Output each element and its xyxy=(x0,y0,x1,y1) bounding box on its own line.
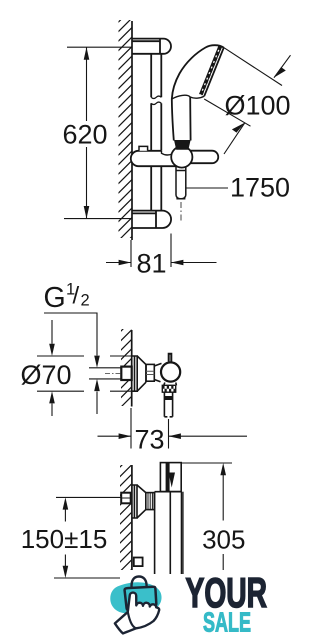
rail break symbol xyxy=(151,96,161,104)
shower head body xyxy=(172,45,224,99)
620 arrow up xyxy=(84,47,90,60)
1750 leader line xyxy=(187,187,229,189)
logo bag body xyxy=(125,587,157,610)
holder left cap xyxy=(131,151,139,166)
73 right dim line xyxy=(169,435,248,437)
shower handle tube xyxy=(172,97,191,141)
holder bar top edge xyxy=(139,150,162,152)
top bracket bar xyxy=(132,39,160,54)
head bottom edge to face xyxy=(190,96,204,98)
inlet fitting behind wall xyxy=(121,367,131,380)
Ø70 lower arrow shaft xyxy=(51,404,53,417)
inlet centerline xyxy=(105,372,122,374)
hose centerline dash-dot xyxy=(180,202,182,222)
holder cone bulge xyxy=(171,146,192,167)
73 right ext line xyxy=(168,419,170,449)
150 upper arrow shaft xyxy=(64,510,66,522)
escutcheon backplate xyxy=(132,356,137,391)
305 ext line xyxy=(181,462,232,464)
top fitting box xyxy=(160,463,181,492)
620 arrow down xyxy=(84,206,90,219)
fitting inner triangle xyxy=(169,473,176,488)
logo hand wrist line xyxy=(128,612,136,628)
holder clamp lever xyxy=(139,146,148,150)
body pipe xyxy=(155,492,182,574)
wall face line top xyxy=(131,21,133,240)
spray face inner line xyxy=(200,46,219,94)
fitting inner dark band xyxy=(166,463,170,492)
knob stem xyxy=(169,354,172,362)
G thread upper line xyxy=(89,367,122,369)
620 dimension line lower xyxy=(86,147,88,219)
spray face outer edge xyxy=(204,48,224,97)
bottom bracket bar xyxy=(132,211,156,228)
bottom wall face line xyxy=(131,465,133,570)
Ø100 upper arrowhead xyxy=(274,67,286,78)
rail tube xyxy=(151,54,161,210)
svg-text:81: 81 xyxy=(136,248,166,278)
svg-text:73: 73 xyxy=(134,424,164,454)
middle wall hatch xyxy=(120,319,134,418)
top bracket end cap xyxy=(160,39,171,54)
svg-text:SALE: SALE xyxy=(203,607,251,638)
outlet dark band xyxy=(164,396,172,400)
620 top extension line xyxy=(67,46,131,48)
logo teal blob xyxy=(110,582,161,613)
305 dim line lower xyxy=(222,554,224,570)
Ø100 upper extension line xyxy=(224,48,282,86)
G thread lower line xyxy=(89,378,122,380)
73 left ext line xyxy=(130,408,132,449)
bottom escutcheon cone xyxy=(137,485,146,518)
lower wall clamp xyxy=(134,558,143,567)
holder right arm xyxy=(190,151,218,164)
holder bar bottom edge xyxy=(139,165,178,167)
G1/2 arrow down xyxy=(94,356,100,368)
G1/2 leader lower shaft xyxy=(96,392,98,415)
escutcheon cone xyxy=(137,356,146,391)
hose upper tube xyxy=(176,167,186,199)
svg-text:150±15: 150±15 xyxy=(21,524,108,554)
81 left extension line xyxy=(130,240,132,267)
73 left dim line xyxy=(98,435,132,437)
collar inner lines xyxy=(146,371,154,374)
wall hatch top xyxy=(117,8,133,262)
Ø70 arrow up xyxy=(49,391,55,403)
G1/2 arrow up xyxy=(94,379,100,391)
holder left bar white body xyxy=(138,151,177,166)
spray nozzles dashes xyxy=(201,46,221,94)
svg-text:/: / xyxy=(73,283,80,310)
150 upper ext line xyxy=(56,496,121,498)
bottom bracket end cap xyxy=(156,211,171,228)
logo hand xyxy=(115,593,159,634)
81 left arrowhead xyxy=(119,260,131,266)
pipe right edge thick xyxy=(182,492,184,574)
Ø70 upper ext line xyxy=(37,355,132,357)
middle wall face line xyxy=(131,330,133,407)
shower head neck chord xyxy=(172,95,190,99)
checkered nut xyxy=(162,385,175,392)
svg-text:620: 620 xyxy=(62,120,107,150)
Ø100 lower arrow shaft xyxy=(224,123,245,154)
81 right arrowhead xyxy=(171,260,183,266)
Ø100 upper arrow shaft xyxy=(274,55,291,77)
Ø70 upper arrow shaft xyxy=(51,320,53,344)
handle cone black xyxy=(174,140,191,150)
150 lower arrow shaft xyxy=(64,555,66,567)
Ø70 arrow down xyxy=(49,344,55,356)
81 left dim line xyxy=(106,262,131,264)
svg-text:2: 2 xyxy=(81,292,90,310)
neck below knob xyxy=(164,383,177,386)
wall fitting split xyxy=(121,497,131,499)
Ø100 lower extension line xyxy=(204,99,250,126)
svg-text:Ø100: Ø100 xyxy=(224,91,290,121)
knurl stripes xyxy=(148,493,152,510)
150 lower ext line xyxy=(54,577,120,579)
valve collar xyxy=(146,364,154,381)
150 arrow up xyxy=(63,497,69,509)
73 right arrowhead xyxy=(169,433,181,439)
81 right extension line xyxy=(170,234,172,268)
305 arrow up xyxy=(220,463,226,475)
wall fitting behind xyxy=(121,493,131,504)
svg-text:Ø70: Ø70 xyxy=(20,360,71,390)
knurled collar xyxy=(146,493,155,510)
knob circle xyxy=(161,362,180,381)
connector to knob xyxy=(154,363,161,381)
Ø70 dimension xyxy=(37,320,132,416)
73 left arrowhead xyxy=(119,433,131,439)
150 arrow down xyxy=(63,566,69,578)
620 dimension line upper xyxy=(86,47,88,121)
305 dim line upper xyxy=(222,475,224,521)
Ø70 lower ext line xyxy=(37,390,132,392)
spray face middle line xyxy=(202,47,222,95)
svg-text:G: G xyxy=(44,282,66,314)
bottom wall hatch xyxy=(119,454,133,592)
Ø100 lower arrowhead xyxy=(232,123,245,133)
logo bag handle xyxy=(132,576,147,587)
G1/2 leader underline xyxy=(44,313,97,356)
620 bottom extension line xyxy=(64,218,131,220)
svg-text:1750: 1750 xyxy=(230,173,290,203)
holder waist notch xyxy=(162,151,173,155)
svg-text:305: 305 xyxy=(202,525,245,555)
81 right dim line xyxy=(171,262,217,264)
bottom escutcheon backplate xyxy=(132,485,137,518)
outlet pipe xyxy=(164,392,172,417)
checker pattern fill xyxy=(162,385,175,392)
